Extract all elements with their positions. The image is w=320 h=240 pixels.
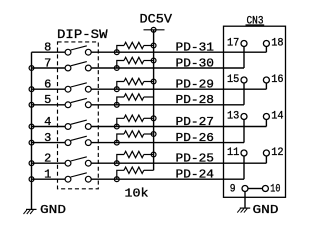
ground GND right symbol <box>240 207 250 209</box>
svg-text:9: 9 <box>230 183 236 195</box>
pin 16 circle <box>263 77 269 83</box>
switch SW8 lever <box>71 46 87 50</box>
wire left bus vertical <box>31 52 33 209</box>
wire pin 18 drop <box>265 47 267 53</box>
wire row 6 right segment to CN3 <box>91 88 266 90</box>
switch SW1 left contact <box>65 176 71 182</box>
node bus junction row 1 <box>29 177 34 182</box>
svg-text:1: 1 <box>44 168 51 182</box>
svg-text:12: 12 <box>271 147 283 159</box>
switch SW2 lever <box>71 157 87 161</box>
wire row 7 left segment <box>32 67 65 69</box>
svg-text:5: 5 <box>44 93 51 107</box>
wire row 5 left segment <box>32 104 65 106</box>
node bus junction row 6 <box>29 87 34 92</box>
switch SW1 lever <box>71 173 87 177</box>
node bus junction row 2 <box>29 161 34 166</box>
switch SW4 left contact <box>65 124 71 130</box>
pin 11 circle <box>241 150 247 156</box>
svg-text:14: 14 <box>271 111 284 123</box>
node resistor tap on row 4 <box>114 124 119 129</box>
node resistor tap on row 7 <box>114 66 119 71</box>
node rail junction R4 <box>151 116 156 121</box>
node rail junction R2 <box>151 152 156 157</box>
svg-text:2: 2 <box>44 152 51 166</box>
svg-text:16: 16 <box>271 74 283 86</box>
power DC5V bar <box>144 29 165 31</box>
wire row 4 right segment to CN3 <box>91 126 266 128</box>
svg-text:8: 8 <box>44 41 51 55</box>
switch SW3 right contact <box>85 140 91 146</box>
node rail junction R8 <box>151 43 156 48</box>
wire row 5 right segment to CN3 <box>91 104 244 106</box>
connector CN3 outline <box>224 26 286 197</box>
switch SW5 left contact <box>65 102 71 108</box>
svg-text:PD-31: PD-31 <box>176 41 215 55</box>
svg-text:13: 13 <box>227 111 239 123</box>
node resistor tap on row 2 <box>114 161 119 166</box>
resistor R4 10k pull-up <box>117 118 124 126</box>
wire row 1 right segment to CN3 <box>91 178 244 180</box>
wire pin 9 ground drop <box>244 192 246 209</box>
wire row 2 left segment <box>32 162 65 164</box>
wire row 3 right segment to CN3 <box>91 142 244 144</box>
svg-text:7: 7 <box>44 56 51 70</box>
svg-text:10k: 10k <box>125 187 149 201</box>
pin 15 circle <box>241 77 247 83</box>
node bus junction row 5 <box>29 102 34 107</box>
wire DC5V rail vertical <box>153 30 155 171</box>
DIP-SW dashed enclosure <box>58 42 99 189</box>
ground GND left symbol <box>26 208 37 210</box>
wire pin 9 to pin 10 <box>248 188 262 190</box>
switch SW8 right contact <box>85 49 91 55</box>
wire row 4 left segment <box>32 126 65 128</box>
svg-text:10: 10 <box>270 183 280 195</box>
wire pin 13 drop <box>243 120 245 143</box>
svg-text:6: 6 <box>44 78 51 92</box>
node bus junction row 7 <box>29 66 34 71</box>
switch SW7 right contact <box>85 65 91 71</box>
node DC5V bar junction <box>151 27 156 32</box>
resistor R5 10k pull-up <box>117 97 124 105</box>
node bus junction row 3 <box>29 140 34 145</box>
wire row 7 right segment to CN3 <box>91 67 244 69</box>
svg-text:PD-27: PD-27 <box>176 115 215 129</box>
resistor R3 10k pull-up <box>117 134 124 143</box>
pin 14 circle <box>263 114 269 120</box>
switch SW8 left contact <box>65 49 71 55</box>
switch SW4 right contact <box>85 124 91 130</box>
switch SW7 lever <box>71 62 87 66</box>
switch SW3 lever <box>71 136 87 140</box>
pin 12 circle <box>263 150 269 156</box>
wire row 6 left segment <box>32 88 65 90</box>
node bus junction row 4 <box>29 124 34 129</box>
switch SW6 right contact <box>85 86 91 92</box>
switch SW2 right contact <box>85 160 91 166</box>
node rail junction R3 <box>151 132 156 137</box>
wire row 2 right segment to CN3 <box>91 162 266 164</box>
wire row 1 left segment <box>32 178 65 180</box>
node rail junction R7 <box>151 58 156 63</box>
node resistor tap on row 3 <box>114 140 119 145</box>
switch SW4 lever <box>71 120 87 124</box>
svg-text:GND: GND <box>40 203 66 217</box>
resistor R6 10k pull-up <box>117 82 124 90</box>
resistor R7 10k pull-up <box>117 61 124 69</box>
svg-text:GND: GND <box>253 203 279 217</box>
wire pin 11 drop <box>243 156 245 179</box>
wire pin 16 drop <box>265 83 267 89</box>
svg-text:18: 18 <box>271 38 283 50</box>
pin 10 circle <box>262 186 268 192</box>
svg-text:PD-28: PD-28 <box>176 93 215 107</box>
node resistor tap on row 5 <box>114 102 119 107</box>
node resistor tap on row 8 <box>114 50 119 55</box>
pin 9 circle <box>242 186 248 192</box>
svg-text:PD-29: PD-29 <box>176 78 215 92</box>
wire pin 15 drop <box>243 83 245 105</box>
pin 17 circle <box>241 41 247 47</box>
wire pin 17 drop <box>243 47 245 69</box>
wire row 8 right segment to CN3 <box>91 51 266 53</box>
wire pin 12 drop <box>265 156 267 163</box>
svg-text:11: 11 <box>227 147 240 159</box>
pin 18 circle <box>263 41 269 47</box>
svg-text:15: 15 <box>227 74 239 86</box>
node rail junction R6 <box>151 79 156 84</box>
node resistor tap on row 1 <box>114 177 119 182</box>
switch SW7 left contact <box>65 65 71 71</box>
switch SW1 right contact <box>85 176 91 182</box>
switch SW5 right contact <box>85 102 91 108</box>
resistor R8 10k pull-up <box>117 46 124 53</box>
node resistor tap on row 6 <box>114 87 119 92</box>
svg-text:PD-24: PD-24 <box>176 168 215 182</box>
resistor R1 10k pull-up <box>117 170 124 179</box>
svg-text:PD-30: PD-30 <box>176 56 215 70</box>
switch SW2 left contact <box>65 160 71 166</box>
wire row 8 left segment <box>32 51 65 53</box>
wire pin 14 drop <box>265 120 267 127</box>
wire row 3 left segment <box>32 142 65 144</box>
resistor R2 10k pull-up <box>117 155 124 164</box>
svg-text:4: 4 <box>44 115 51 129</box>
switch SW5 lever <box>71 98 87 102</box>
svg-text:3: 3 <box>44 131 51 145</box>
pin 13 circle <box>241 114 247 120</box>
svg-text:PD-25: PD-25 <box>176 152 215 166</box>
svg-text:17: 17 <box>227 38 239 50</box>
svg-text:DIP-SW: DIP-SW <box>57 28 108 42</box>
svg-text:DC5V: DC5V <box>140 12 173 26</box>
switch SW6 lever <box>71 83 87 87</box>
switch SW6 left contact <box>65 86 71 92</box>
switch SW3 left contact <box>65 140 71 146</box>
svg-text:PD-26: PD-26 <box>176 131 215 145</box>
